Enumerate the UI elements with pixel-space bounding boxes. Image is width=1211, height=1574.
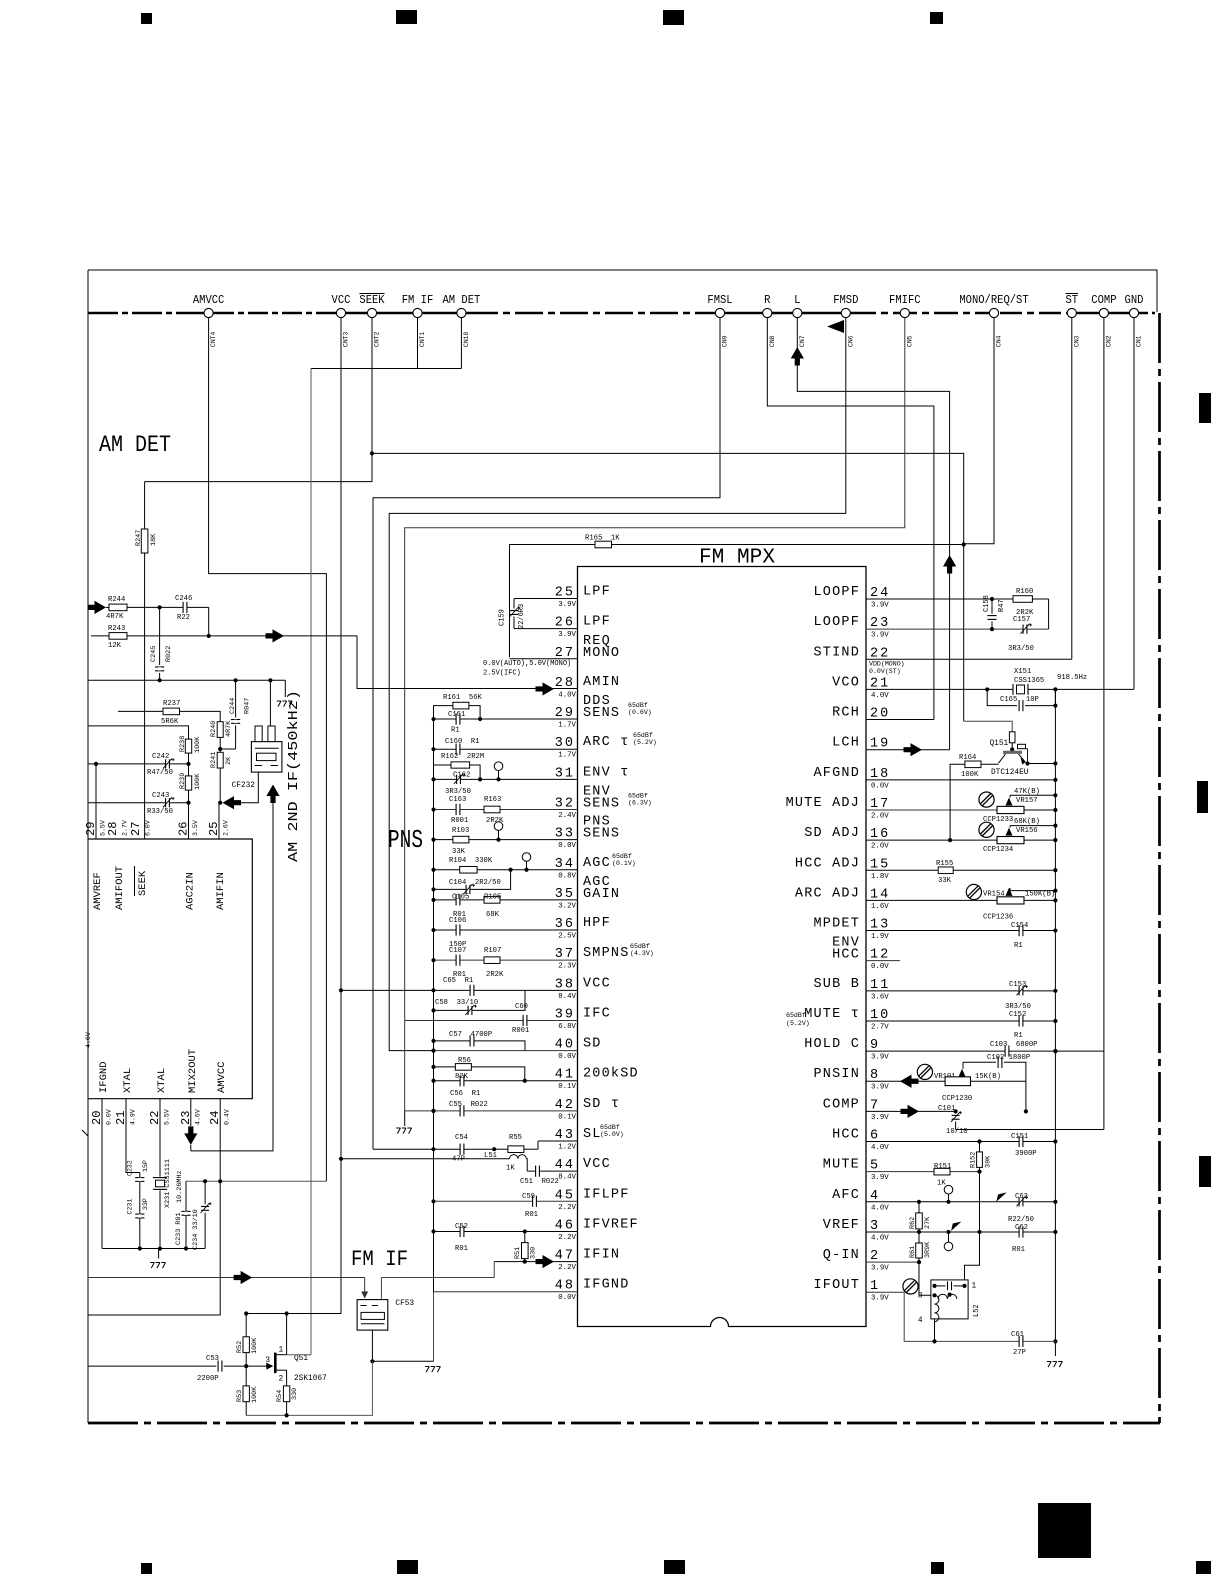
svg-text:C101: C101 — [938, 1105, 955, 1113]
svg-text:HOLD C: HOLD C — [804, 1037, 860, 1052]
adjust symbol for VR101 — [917, 1064, 932, 1079]
svg-text:1.7V: 1.7V — [558, 752, 576, 760]
svg-text:AM 2ND IF(450kHz): AM 2ND IF(450kHz) — [287, 690, 302, 862]
svg-text:R164: R164 — [959, 754, 976, 762]
svg-text:CNT2: CNT2 — [374, 331, 381, 347]
svg-text:1.8V: 1.8V — [871, 873, 889, 881]
page top border — [88, 270, 1157, 312]
ceramic filter CF53 — [357, 1300, 388, 1331]
svg-text:33K: 33K — [452, 848, 466, 856]
svg-text:CCP1236: CCP1236 — [983, 913, 1013, 921]
capacitor C160 R1 — [456, 748, 459, 751]
resistor R162 2R2M — [434, 765, 452, 779]
svg-text:C60: C60 — [515, 1003, 528, 1011]
svg-text:C65 R1: C65 R1 — [443, 977, 473, 985]
wire pin 40 stub — [434, 1050, 578, 1052]
wire pin 21 stub right — [866, 688, 987, 690]
svg-text:CCP1234: CCP1234 — [983, 846, 1013, 854]
svg-text:CF232: CF232 — [232, 782, 256, 790]
svg-text:2.7V: 2.7V — [122, 820, 129, 836]
signal arrow AM DET out — [266, 629, 285, 642]
svg-text:R237: R237 — [163, 700, 180, 708]
svg-text:C58 33/10: C58 33/10 — [435, 999, 478, 1007]
signal arrow out of pin 19 — [904, 743, 923, 756]
svg-text:IFOUT: IFOUT — [813, 1278, 860, 1293]
svg-text:R56: R56 — [458, 1057, 471, 1065]
svg-text:CN8: CN8 — [769, 335, 776, 347]
svg-text:(0.1V): (0.1V) — [612, 860, 636, 867]
svg-text:ARC ADJ: ARC ADJ — [795, 886, 860, 901]
resistor R51 330 — [524, 1231, 526, 1242]
inductor L51 — [341, 1158, 510, 1160]
connector CNT2 (SEEK) — [367, 308, 376, 317]
svg-text:C105: C105 — [452, 894, 469, 902]
svg-text:R01: R01 — [455, 1245, 468, 1253]
svg-text:R1: R1 — [451, 727, 460, 735]
signal flag near pin 3 — [951, 1222, 961, 1231]
connector CNT4 (AMVCC) — [204, 308, 213, 317]
svg-text:R54: R54 — [276, 1390, 284, 1402]
svg-text:R: R — [764, 294, 770, 307]
svg-text:MPDET: MPDET — [813, 917, 860, 932]
wire pin 15 stub right — [866, 869, 1055, 871]
svg-text:X151: X151 — [1014, 668, 1031, 676]
svg-text:3.6V: 3.6V — [871, 993, 889, 1001]
svg-text:Q51: Q51 — [294, 1355, 308, 1363]
wire pin 27 stub — [510, 658, 578, 660]
svg-text:6.8V: 6.8V — [558, 1023, 576, 1031]
svg-text:R163: R163 — [484, 796, 501, 804]
svg-text:2R2K: 2R2K — [486, 971, 504, 979]
svg-text:4.0V: 4.0V — [558, 691, 576, 699]
edge mark right 1 — [1199, 393, 1211, 423]
svg-text:C107: C107 — [449, 947, 466, 955]
svg-text:SEEK: SEEK — [359, 294, 384, 307]
svg-text:4.0V: 4.0V — [871, 1144, 889, 1152]
svg-text:PNS: PNS — [388, 825, 423, 855]
transistor Q151 DTC124EU — [964, 721, 1013, 732]
resistor R241 2K — [217, 752, 223, 768]
capacitor C65 R1 — [470, 989, 473, 992]
svg-text:FM IF: FM IF — [351, 1247, 408, 1272]
svg-text:R151: R151 — [934, 1163, 951, 1171]
wire pin 44 stub — [527, 1170, 577, 1172]
svg-text:R105: R105 — [484, 894, 501, 902]
svg-text:68K(B): 68K(B) — [1014, 818, 1040, 826]
svg-text:C52: C52 — [455, 1223, 468, 1231]
capacitor C61 27P — [1019, 1340, 1022, 1343]
wire FM IF vertical drop — [310, 369, 312, 1355]
svg-text:100K: 100K — [961, 771, 979, 779]
wire FMSD from CN6 — [389, 318, 846, 1051]
svg-text:R22/50: R22/50 — [1008, 1216, 1034, 1224]
svg-text:VDD(MONO): VDD(MONO) — [869, 661, 905, 668]
connector CN2 (COMP) — [1099, 308, 1108, 317]
wire pin 10 stub right — [866, 1020, 1055, 1022]
signal arrow into pin 47 — [536, 1255, 555, 1268]
svg-text:IFVREF: IFVREF — [583, 1217, 639, 1232]
wire pin 4 stub right — [866, 1201, 1055, 1203]
signal arrow into pin 28 — [536, 682, 555, 695]
edge mark right 2 — [1197, 781, 1208, 813]
svg-text:27P: 27P — [1013, 1349, 1026, 1357]
capacitor C58 33/10 — [434, 990, 526, 1010]
svg-text:C163: C163 — [449, 796, 466, 804]
svg-text:0.0V: 0.0V — [871, 963, 889, 971]
svg-text:0.0V: 0.0V — [558, 1053, 576, 1061]
wire pin 33 stub — [434, 839, 578, 841]
svg-text:AGC: AGC — [583, 856, 611, 871]
svg-text:RCH: RCH — [832, 706, 860, 721]
IC AM IF box partial — [88, 839, 252, 1099]
svg-text:R244: R244 — [108, 596, 125, 604]
wire pin 16 stub right — [866, 839, 997, 841]
svg-text:65dBf: 65dBf — [630, 943, 650, 950]
svg-text:C159: C159 — [499, 609, 507, 626]
svg-text:33K: 33K — [938, 877, 952, 885]
svg-text:AMIFOUT: AMIFOUT — [114, 866, 126, 910]
svg-text:0.1V: 0.1V — [558, 1113, 576, 1121]
wire VCC from CNT3 — [340, 318, 342, 1314]
svg-text:100K: 100K — [194, 773, 202, 790]
svg-text:XTAL: XTAL — [156, 1068, 168, 1093]
svg-text:4.6V: 4.6V — [194, 1109, 201, 1125]
resistor R237 5R6K — [118, 710, 163, 712]
wire GND from CN1 — [1133, 318, 1135, 690]
svg-text:C232: C232 — [127, 1160, 134, 1176]
registration mark top 2 — [396, 10, 417, 24]
svg-text:0.0V: 0.0V — [871, 782, 889, 790]
wire pin 45 stub — [434, 1200, 578, 1202]
svg-text:R161 56K: R161 56K — [443, 694, 483, 702]
svg-text:R241: R241 — [210, 752, 218, 768]
svg-text:MONO: MONO — [583, 646, 620, 661]
resistor R238 100K — [185, 739, 191, 753]
svg-text:HCC ADJ: HCC ADJ — [795, 856, 860, 871]
svg-text:R55: R55 — [509, 1134, 522, 1142]
svg-text:R33/50: R33/50 — [147, 808, 173, 816]
svg-text:C162: C162 — [453, 772, 470, 780]
wire pin 13 stub right — [866, 930, 1055, 932]
svg-text:VCO: VCO — [832, 675, 860, 690]
svg-text:CNT3: CNT3 — [343, 331, 350, 347]
svg-text:LOOPF: LOOPF — [813, 615, 860, 630]
svg-text:MONO/REQ/ST: MONO/REQ/ST — [959, 294, 1028, 307]
wire pin 35 stub — [434, 899, 578, 901]
svg-text:MIX2OUT: MIX2OUT — [187, 1049, 199, 1093]
svg-text:AM DET: AM DET — [99, 432, 171, 458]
svg-text:R107: R107 — [484, 947, 501, 955]
svg-text:C63: C63 — [1015, 1193, 1028, 1201]
wire pin 48 to ground — [433, 1292, 435, 1362]
wire CF232 output down — [191, 801, 273, 1151]
capacitor C246 R22 — [183, 606, 186, 609]
svg-text:HCC: HCC — [832, 1128, 860, 1143]
svg-text:ST: ST — [1066, 294, 1079, 307]
registration mark top 1 — [141, 13, 152, 24]
wire pin 7 stub right — [866, 1110, 956, 1112]
svg-text:918.5Hz: 918.5Hz — [1057, 674, 1087, 682]
capacitor C233 R01 — [185, 1181, 187, 1211]
svg-text:C246: C246 — [175, 595, 192, 603]
capacitor C60 R001 — [523, 1019, 526, 1022]
svg-text:R047: R047 — [244, 698, 252, 714]
connector CN5 (FMIFC) — [900, 308, 909, 317]
svg-text:LOOPF: LOOPF — [813, 585, 860, 600]
adjust symbol for L52 — [903, 1279, 918, 1294]
capacitor C158 R47 — [991, 599, 993, 614]
wire pin 11 stub right — [866, 990, 1055, 992]
svg-text:27: 27 — [129, 822, 143, 836]
svg-text:ENV τ: ENV τ — [583, 765, 630, 780]
svg-text:100K: 100K — [251, 1386, 259, 1403]
wire pin 39 stub — [405, 1019, 578, 1021]
resistor R61 3R9K — [918, 1232, 920, 1243]
svg-text:0.0V(ST): 0.0V(ST) — [869, 668, 901, 675]
svg-text:C153: C153 — [1009, 981, 1026, 989]
wire pin 29 stub — [434, 718, 578, 720]
svg-text:3.9V: 3.9V — [871, 1084, 889, 1092]
capacitor C232 15P — [139, 1173, 141, 1178]
ground at right bus — [1047, 1361, 1051, 1363]
registration mark bottom 2 — [397, 1560, 418, 1574]
wire SEEK from CNT2 — [145, 318, 372, 482]
wire filter top feed — [269, 680, 271, 726]
resistor R55 1K — [494, 1148, 508, 1150]
capacitor C101 10/10 — [954, 1109, 958, 1113]
wire pin 20 stub right — [866, 719, 934, 721]
signal arrow on FM IF input — [234, 1271, 253, 1284]
wire FM IF horizontal — [311, 368, 461, 370]
svg-text:C55 R022: C55 R022 — [449, 1101, 488, 1109]
ground at crystal — [158, 1249, 160, 1259]
svg-text:FM IF: FM IF — [402, 294, 434, 307]
connector CNT3 (VCC) — [336, 308, 345, 317]
svg-text:CNT4: CNT4 — [210, 331, 217, 347]
wire pin 21 XTAL down — [126, 1099, 140, 1173]
wire COMP from CN2 — [1103, 318, 1105, 1130]
resistor R240 4R7K — [217, 722, 223, 738]
svg-text:CN7: CN7 — [799, 335, 806, 347]
svg-text:CN1: CN1 — [1136, 335, 1143, 347]
svg-text:65dBf: 65dBf — [612, 853, 632, 860]
svg-text:65dBf: 65dBf — [786, 1012, 806, 1019]
wire COMP drop to C101 — [956, 1129, 1104, 1131]
signal arrow left at FMSD — [827, 320, 844, 333]
wire pin 48 stub — [434, 1291, 578, 1293]
wire pin 43 stub — [538, 1140, 578, 1142]
svg-text:SL: SL — [583, 1127, 602, 1142]
wire FM IF input — [88, 1277, 365, 1279]
capacitor C245 R022 — [159, 607, 161, 665]
svg-text:R165 1K: R165 1K — [585, 535, 620, 543]
svg-text:L51: L51 — [484, 1152, 497, 1160]
capacitor C165 10P — [987, 689, 1017, 705]
svg-text:2.2V: 2.2V — [558, 1234, 576, 1242]
wire pin 5 stub right — [866, 1171, 980, 1173]
svg-text:DTC124EU: DTC124EU — [991, 769, 1029, 777]
svg-text:C56 R1: C56 R1 — [450, 1090, 480, 1098]
capacitor C159 22/6R3 — [513, 599, 515, 609]
capacitor C52 R01 — [460, 1230, 463, 1233]
svg-text:10.26MHz: 10.26MHz — [176, 1170, 184, 1203]
svg-text:3.9V: 3.9V — [871, 632, 889, 640]
wire AGC2IN upper — [88, 726, 189, 739]
wire R from CN8 — [767, 318, 934, 720]
svg-text:15P: 15P — [142, 1160, 149, 1172]
svg-text:3.2V: 3.2V — [558, 902, 576, 910]
capacitor C153 3R3/50 — [1019, 989, 1022, 992]
signal arrow up on L wire at CN7 — [791, 347, 804, 366]
svg-text:R104 330K: R104 330K — [449, 857, 493, 865]
wire pin 30 stub — [434, 748, 578, 750]
svg-text:CN5: CN5 — [906, 335, 913, 347]
capacitor C151 3900P — [1019, 1140, 1022, 1143]
trimmer VR154 150K(B) — [1010, 890, 1055, 892]
svg-text:0.0V(AUTO),5.0V(MONO): 0.0V(AUTO),5.0V(MONO) — [483, 660, 571, 668]
svg-text:0.0V: 0.0V — [558, 842, 576, 850]
wire pin 26 stub — [514, 628, 578, 630]
svg-text:150K(B): 150K(B) — [1025, 891, 1055, 899]
svg-text:4.0V: 4.0V — [871, 1234, 889, 1242]
wire SEEK branch to R165 — [372, 453, 964, 721]
resistor R151 1K — [934, 1168, 950, 1175]
svg-text:1: 1 — [279, 1347, 284, 1355]
svg-text:C102 1800P: C102 1800P — [987, 1054, 1030, 1062]
svg-text:CSS1365: CSS1365 — [1014, 677, 1044, 685]
wire VR101 right to drop — [971, 1080, 1026, 1082]
svg-text:AMVCC: AMVCC — [216, 1061, 228, 1093]
svg-text:65dBf: 65dBf — [628, 792, 648, 799]
svg-text:4.0V: 4.0V — [871, 1204, 889, 1212]
svg-text:28: 28 — [106, 822, 120, 836]
resistor R155 33K — [938, 867, 953, 874]
wire AMVCC from CNT4 — [209, 318, 327, 1182]
page right border dash-dot — [1158, 313, 1161, 1423]
wire Q51 drain to FM IF line — [287, 1354, 311, 1356]
capacitor C55 R022 — [460, 1109, 463, 1112]
wire L from CN7 — [797, 318, 949, 750]
wire pin 17 stub right — [866, 809, 997, 811]
wire pin 32 stub — [434, 808, 578, 810]
crystal bottom rail — [102, 1248, 205, 1250]
resistor R53 100K — [245, 1366, 247, 1386]
svg-text:C57 4700P: C57 4700P — [449, 1031, 492, 1039]
svg-text:VCC: VCC — [583, 976, 611, 991]
connector CN1 (GND) — [1129, 308, 1138, 317]
svg-text:L52: L52 — [973, 1304, 981, 1317]
Q51 drain rail — [246, 1313, 341, 1315]
svg-text:GND: GND — [1125, 294, 1144, 307]
svg-text:3.5V: 3.5V — [192, 820, 199, 836]
svg-text:3.9V: 3.9V — [558, 601, 576, 609]
svg-text:100K: 100K — [194, 736, 202, 753]
svg-text:R162 2R2M: R162 2R2M — [441, 753, 484, 761]
connector CN9 (FMSL) — [715, 308, 724, 317]
svg-text:3R9K: 3R9K — [924, 1241, 932, 1258]
capacitor C57 4700P — [434, 1041, 526, 1051]
svg-text:1: 1 — [972, 1283, 977, 1291]
svg-text:R1: R1 — [1014, 1032, 1023, 1040]
wire pin 37 stub — [434, 959, 578, 961]
resistor R239 100K — [185, 776, 191, 790]
capacitor C231 33P — [135, 1213, 144, 1215]
resistor R56 82K — [434, 1066, 456, 1068]
svg-text:MUTE τ: MUTE τ — [804, 1007, 860, 1022]
svg-text:39K: 39K — [985, 1155, 993, 1168]
capacitor C107 R01 — [456, 959, 459, 962]
adjust symbol for VR154 — [966, 884, 981, 899]
svg-text:CF53: CF53 — [395, 1300, 414, 1308]
svg-text:3.9V: 3.9V — [871, 1054, 889, 1062]
svg-text:R152: R152 — [970, 1152, 978, 1168]
wire crystal top rail — [186, 1180, 326, 1182]
svg-text:2.0V: 2.0V — [871, 812, 889, 820]
wire CF53 bottom to ground rail — [372, 1330, 433, 1361]
registration mark bottom 3 — [664, 1560, 685, 1574]
svg-text:PNSIN: PNSIN — [813, 1067, 860, 1082]
svg-text:2.5V(IFC): 2.5V(IFC) — [483, 670, 521, 678]
resistor R243 12K — [91, 635, 109, 637]
resistor R152 39K — [979, 1142, 981, 1152]
svg-text:CN18: CN18 — [463, 331, 470, 347]
svg-text:AM DET: AM DET — [443, 294, 481, 307]
resistor R52 100K — [245, 1314, 247, 1337]
svg-text:2.2V: 2.2V — [558, 1264, 576, 1272]
svg-text:C157: C157 — [1013, 616, 1030, 624]
svg-text:2.0V: 2.0V — [871, 843, 889, 851]
connector CN6 (FMSD) — [841, 308, 850, 317]
svg-text:2SK1067: 2SK1067 — [294, 1375, 327, 1383]
svg-text:VR157: VR157 — [1016, 797, 1038, 805]
svg-text:C59: C59 — [522, 1193, 535, 1201]
svg-text:R247: R247 — [135, 530, 143, 546]
svg-text:3900P: 3900P — [1015, 1150, 1037, 1158]
svg-text:0.1V: 0.1V — [558, 1083, 576, 1091]
svg-text:C53: C53 — [206, 1355, 219, 1363]
wire pin 24 stub right — [866, 598, 1049, 600]
svg-text:IFC: IFC — [583, 1006, 611, 1021]
capacitor C163 R001 — [456, 808, 459, 811]
resistor R161 56K — [434, 706, 453, 719]
wire pin 47 stub — [494, 1261, 577, 1263]
registration mark top 3 — [663, 10, 684, 25]
wire FM IF from CNT1 — [417, 318, 419, 369]
svg-text:8.4V: 8.4V — [558, 993, 576, 1001]
trimmer VR156 68K(B) — [1010, 825, 1055, 827]
wire pin 14 stub right — [866, 899, 997, 901]
svg-text:3R3/50: 3R3/50 — [1008, 645, 1034, 653]
wire pin 25 stub — [514, 598, 578, 600]
svg-text:MUTE: MUTE — [823, 1158, 860, 1173]
svg-text:47P: 47P — [452, 1156, 465, 1164]
IC U151 FM MPX box — [578, 567, 867, 1327]
svg-text:5R6K: 5R6K — [161, 718, 179, 726]
wire pin 42 stub — [405, 1110, 578, 1112]
svg-text:2.3V: 2.3V — [558, 963, 576, 971]
svg-text:26: 26 — [177, 822, 191, 836]
svg-text:2: 2 — [279, 1376, 284, 1384]
svg-text:(6.3V): (6.3V) — [628, 799, 652, 806]
svg-text:1.9V: 1.9V — [871, 933, 889, 941]
svg-text:ARC τ: ARC τ — [583, 735, 630, 750]
svg-text:R22: R22 — [177, 614, 190, 622]
wire pin 9 stub right — [866, 1050, 1104, 1052]
test point below pin 3 — [944, 1242, 953, 1251]
svg-text:C151: C151 — [1011, 1133, 1028, 1141]
svg-text:C51 R022: C51 R022 — [520, 1178, 559, 1186]
svg-text:65dBf: 65dBf — [633, 732, 653, 739]
